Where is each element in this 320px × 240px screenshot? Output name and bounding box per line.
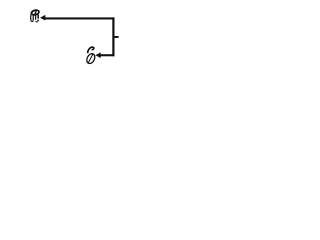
component J1 (small clip-art blob, top-left) [31,9,40,21]
arrowhead 2 (points left at J2) [95,52,100,58]
background [0,0,150,73]
wire: bottom horizontal to arrow 2 [100,54,114,56]
component J2 (small clip-art blob, bottom-left of arrow 2) [85,47,96,65]
stub/tick on vertical wire [113,36,119,38]
wire: vertical right segment [112,17,114,56]
wire: top horizontal from arrow 1 to corner [45,17,115,19]
arrowhead 1 (points left at J1) [40,15,45,21]
